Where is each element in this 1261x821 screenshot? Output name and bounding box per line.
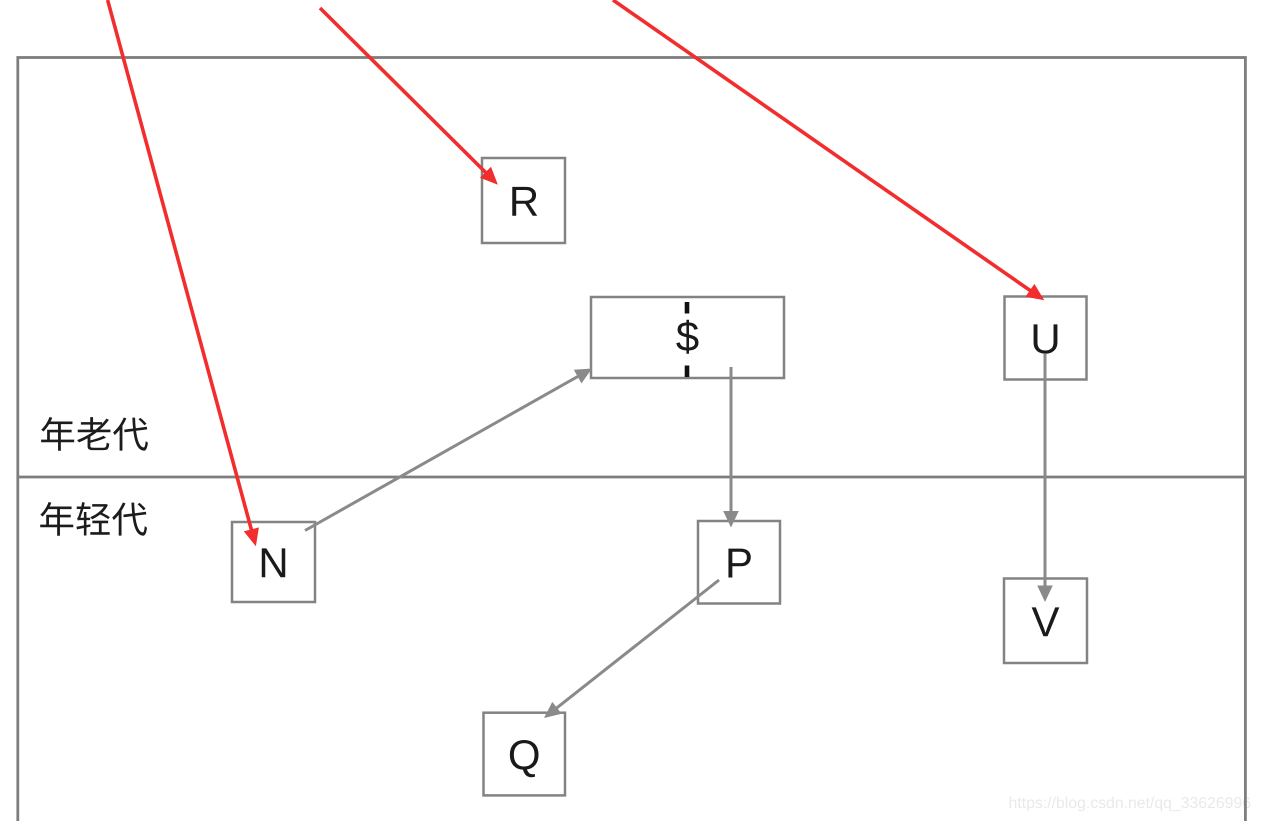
red arrow to N: [108, 0, 259, 546]
gray arrow U to V: [1037, 354, 1053, 602]
node box Q: [484, 713, 566, 796]
node box V: [1004, 579, 1087, 664]
node box U: [1005, 297, 1087, 380]
label 年轻代 (young generation): [40, 502, 147, 536]
watermark text (blog csdn qq_33626996): [1010, 797, 1251, 812]
letter N: [262, 548, 285, 577]
node box $ (survivor): [591, 297, 784, 378]
generation divider line: [18, 476, 1246, 479]
letter Q: [510, 740, 539, 777]
red arrow to U: [613, 0, 1044, 300]
red arrow to R: [320, 8, 498, 185]
node box N: [232, 522, 315, 602]
letter $: [676, 320, 698, 354]
node box R: [482, 158, 565, 243]
letter V: [1032, 607, 1060, 636]
gray arrow N to $: [305, 369, 592, 531]
gray arrow $ to P: [723, 367, 739, 528]
gray arrow P to Q: [544, 580, 719, 718]
dashed divider in $ box: [685, 302, 690, 314]
letter R: [512, 187, 537, 216]
letter U: [1034, 324, 1058, 353]
letter P: [728, 549, 750, 578]
node box P: [698, 521, 780, 604]
label 年老代 (old generation): [41, 417, 148, 451]
